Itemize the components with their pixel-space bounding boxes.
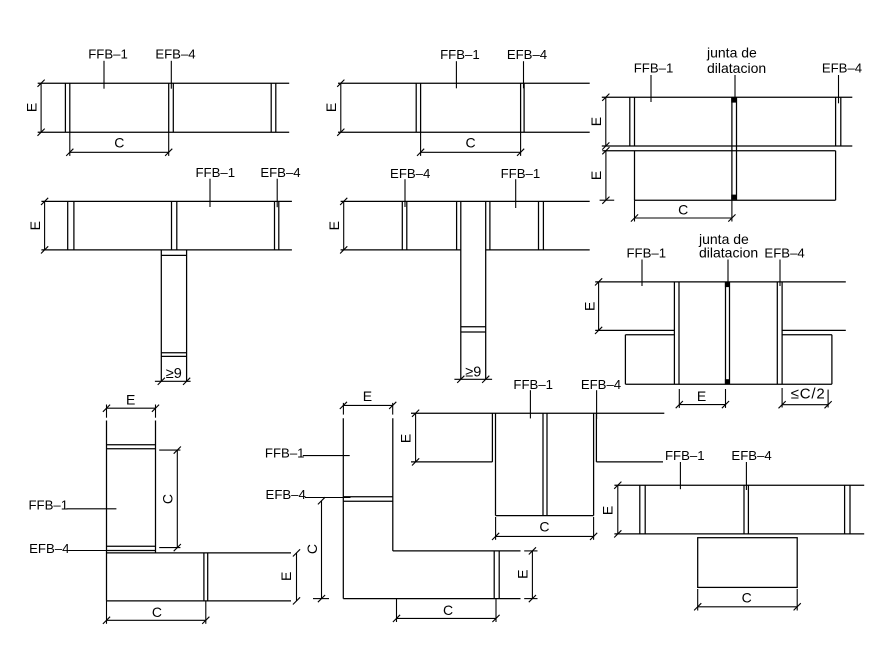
D7 dim C bottom tick right — [202, 617, 209, 624]
D1 dim C tick right — [165, 149, 172, 156]
D7 dim E line — [107, 407, 156, 409]
D2 dim E line — [340, 83, 342, 132]
D10 dim C tick right — [794, 603, 801, 610]
D10 wall joint middle — [744, 485, 748, 534]
D9 slab bottom left line — [411, 461, 492, 463]
svg-text:C: C — [678, 202, 688, 218]
D2 dim E tick top — [337, 80, 344, 87]
D7 dim C line — [176, 450, 178, 547]
svg-text:E: E — [697, 388, 706, 404]
svg-text:FFB–1: FFB–1 — [501, 166, 541, 181]
D3 leader FFB-1 — [650, 75, 652, 102]
D8 dim E right tick bottom — [529, 595, 536, 602]
detail 9: wide T junction plan, bottom-middle-right — [397, 377, 664, 540]
D1 dim C ext right — [168, 132, 170, 156]
D5 dim >=9 tick left — [457, 376, 464, 383]
D5 dim >=9 line — [454, 378, 492, 380]
D4 leader EFB-4 — [276, 179, 278, 208]
D3 lower slab bottom stub — [600, 199, 615, 201]
D7 column upper joint — [107, 445, 156, 449]
D9 dim E tick top — [412, 410, 419, 417]
D10 leader EFB-4 — [745, 462, 747, 490]
svg-text:E: E — [24, 103, 40, 112]
D5 dim E line — [343, 201, 345, 250]
D6 lower right box top — [782, 334, 832, 336]
D7 dim C tick bottom — [174, 544, 181, 551]
svg-text:≥9: ≥9 — [166, 366, 182, 382]
svg-text:E: E — [600, 506, 616, 515]
D4 leader FFB-1 — [209, 179, 211, 207]
D1 wall joint left — [65, 83, 69, 132]
svg-text:E: E — [126, 392, 135, 408]
detail 2: straight wall plan, top-middle — [323, 47, 590, 156]
D3 dim E upper tick top — [602, 94, 609, 101]
D3 joint marker bottom — [731, 195, 736, 200]
D8 column left edge — [342, 418, 344, 598]
D1 wall joint middle — [169, 83, 174, 132]
D10 slab bottom line — [614, 533, 864, 535]
D6 dim C/2 tick right — [825, 401, 832, 408]
D2 dim C tick left — [417, 149, 424, 156]
svg-text:EFB–4: EFB–4 — [155, 47, 195, 62]
D4 wall joint right — [275, 201, 279, 250]
D8 dim E tick left — [340, 402, 347, 409]
D5 dim E tick bottom — [340, 246, 347, 253]
D7 dim E right line — [296, 553, 298, 601]
svg-text:FFB–1: FFB–1 — [627, 245, 667, 260]
svg-text:C: C — [742, 590, 752, 606]
detail 8: corner plan, bottom-middle — [265, 388, 538, 622]
D6 wall joint right — [777, 282, 782, 384]
svg-text:E: E — [278, 572, 294, 581]
svg-text:C: C — [443, 602, 453, 618]
D8 dim C left tick top — [318, 497, 325, 504]
svg-text:FFB–1: FFB–1 — [265, 445, 305, 460]
D6 lower right box right edge — [831, 335, 833, 385]
svg-text:EFB–4: EFB–4 — [29, 541, 69, 556]
svg-text:junta de: junta de — [706, 45, 757, 61]
D5 slab bottom right line — [486, 249, 590, 251]
D7 leader EFB-4 — [69, 550, 107, 552]
D7 dim E right tick bottom — [293, 597, 300, 604]
D1 leader EFB-4 — [170, 61, 172, 89]
D4 dim >=9 tick left — [158, 378, 165, 385]
D8 dim E ext left — [342, 403, 344, 415]
D5 stem companion left — [456, 201, 458, 250]
D1 slab bottom line — [38, 131, 290, 133]
detail 5: T junction plan, middle — [326, 166, 590, 383]
D8 bar joint — [494, 551, 499, 599]
svg-text:FFB–1: FFB–1 — [440, 47, 480, 62]
D5 wall joint right — [539, 201, 544, 250]
D4 stem left edge — [160, 250, 162, 381]
D8 dim C bottom line — [397, 617, 497, 619]
D10 wall joint left — [640, 485, 645, 534]
D3 wall joint right — [836, 97, 841, 146]
D9 stem companion right — [595, 413, 597, 462]
svg-text:dilatacion: dilatacion — [707, 60, 766, 76]
D3 dim E lower tick top — [602, 147, 609, 154]
svg-text:dilatacion: dilatacion — [699, 244, 758, 260]
svg-text:C: C — [466, 134, 476, 150]
D6 leader junta — [727, 260, 729, 283]
svg-text:E: E — [397, 434, 413, 443]
D4 stem right edge — [186, 250, 188, 381]
svg-text:C: C — [304, 544, 320, 554]
D10 dim E line — [617, 485, 619, 534]
D8 dim C bottom tick left — [393, 615, 400, 622]
D2 slab top line — [338, 82, 590, 84]
D10 leader FFB-1 — [679, 462, 681, 489]
D9 slab bottom right line — [596, 461, 663, 463]
D10 slab top line — [614, 484, 864, 486]
D7 dim E ext left — [106, 405, 108, 418]
D10 dim C ext left — [697, 589, 699, 611]
D6 dim E left line — [598, 282, 600, 331]
D2 dim C ext left — [420, 132, 422, 156]
D7 dim C ext top — [159, 449, 180, 451]
D5 leader FFB-1 — [515, 179, 517, 208]
svg-text:FFB–1: FFB–1 — [29, 497, 69, 512]
D3 wall joint left — [630, 97, 635, 146]
D1 dim C ext left — [69, 132, 71, 156]
D6 bottom line — [625, 383, 832, 385]
D1 slab top line — [38, 82, 290, 84]
D3 dim E upper tick bottom — [602, 142, 609, 149]
D1 dim E tick top — [38, 80, 45, 87]
D3 dim C line — [635, 217, 732, 219]
D8 dim E right line — [531, 551, 533, 599]
D7 dim C bottom tick left — [103, 617, 110, 624]
D4 slab bottom line — [41, 249, 292, 251]
svg-text:E: E — [588, 117, 604, 126]
D8 dim E tick right — [389, 402, 396, 409]
svg-text:E: E — [323, 103, 339, 112]
D6 wall joint left — [674, 282, 679, 384]
D8 bar top stub — [524, 550, 537, 552]
D3 slab mid line — [602, 145, 853, 147]
D6 slab top line — [595, 281, 846, 283]
D8 dim C bottom ext left — [396, 599, 398, 622]
D8 dim C left line — [321, 501, 323, 599]
D3 dim C tick left — [631, 214, 638, 221]
svg-text:E: E — [515, 570, 531, 579]
D2 dim E tick bottom — [337, 129, 344, 136]
detail 1: straight wall plan, top-left — [24, 47, 290, 156]
D9 leader FFB-1 — [529, 390, 531, 418]
D7 dim C bottom ext right — [205, 601, 207, 624]
svg-text:FFB–1: FFB–1 — [196, 165, 236, 180]
D3 leader EFB-4 — [838, 75, 840, 103]
D8 column joint — [343, 497, 393, 502]
D7 column left edge — [106, 421, 108, 601]
D3 dim C tick right — [728, 214, 735, 221]
D6 expansion joint wall — [726, 282, 730, 384]
D6 dim E bottom ext right — [725, 389, 727, 408]
D3 dim C ext right — [731, 200, 733, 221]
D3 lower slab top line — [602, 150, 835, 152]
svg-text:EFB–4: EFB–4 — [390, 166, 430, 181]
D2 leader EFB-4 — [523, 61, 525, 88]
D6 dim E left tick top — [595, 278, 602, 285]
D8 dim C bottom tick right — [492, 615, 499, 622]
D8 dim E right tick top — [529, 547, 536, 554]
detail 4: T junction plan, middle-left — [27, 165, 301, 385]
D8 bar bottom line — [343, 598, 520, 600]
svg-text:E: E — [363, 388, 372, 404]
D6 dim E left tick bottom — [595, 327, 602, 334]
D10 dim C line — [698, 606, 798, 608]
D9 stem right edge — [593, 413, 595, 515]
D8 dim E ext right — [392, 403, 394, 415]
svg-text:C: C — [114, 135, 124, 151]
D10 dim E tick top — [614, 482, 621, 489]
D7 dim C bottom line — [107, 619, 206, 621]
D7 dim E tick left — [103, 405, 110, 412]
svg-text:FFB–1: FFB–1 — [88, 47, 128, 62]
svg-text:EFB–4: EFB–4 — [731, 448, 771, 463]
D7 bar top line — [107, 552, 292, 554]
D5 slab top line — [341, 200, 590, 202]
D9 leader EFB-4 — [596, 390, 598, 419]
D5 stem right edge — [485, 201, 487, 379]
D8 column right edge — [392, 418, 394, 551]
D3 leader junta — [734, 75, 736, 100]
D6 dim E bottom ext left — [678, 389, 680, 408]
D1 leader FFB-1 — [103, 61, 105, 89]
D6 lower left box left edge — [624, 335, 626, 385]
D4 dim E tick top — [41, 198, 48, 205]
D9 dim C line — [496, 535, 594, 537]
svg-text:≤C/2: ≤C/2 — [791, 386, 826, 403]
detail 3: expansion joint plan, top-right — [588, 45, 862, 222]
detail 6: expansion joint plan, middle-right — [581, 231, 846, 408]
svg-text:E: E — [27, 221, 43, 230]
D9 stem bottom line — [496, 515, 594, 517]
D1 dim C line — [70, 151, 169, 153]
D6 dim C/2 ext left — [781, 388, 783, 408]
D6 lower left box top — [625, 334, 674, 336]
D4 slab top line — [41, 200, 292, 202]
D10 dim E tick bottom — [614, 530, 621, 537]
D7 bar joint — [204, 553, 208, 601]
D4 wall joint left — [68, 201, 74, 250]
D7 dim C ext bottom — [159, 547, 180, 549]
D9 stem center joint — [543, 413, 547, 515]
D1 dim E tick bottom — [38, 129, 45, 136]
svg-text:EFB–4: EFB–4 — [260, 165, 300, 180]
D3 dim E lower line — [605, 151, 607, 201]
D1 wall joint right — [271, 83, 276, 132]
svg-text:C: C — [539, 519, 549, 535]
svg-text:EFB–4: EFB–4 — [822, 61, 862, 76]
D5 leader EFB-4 — [404, 179, 406, 207]
D2 dim C tick right — [517, 149, 524, 156]
D7 column right edge — [155, 421, 157, 553]
D9 dim E tick bottom — [412, 458, 419, 465]
D9 slab top line — [411, 412, 664, 414]
svg-text:C: C — [160, 494, 176, 504]
D4 dim >=9 tick right — [183, 378, 190, 385]
D5 dim >=9 tick right — [482, 376, 489, 383]
svg-text:E: E — [588, 171, 604, 180]
D10 lower slab box — [698, 538, 798, 588]
D9 stem left edge — [495, 413, 497, 515]
svg-text:EFB–4: EFB–4 — [266, 487, 306, 502]
D3 expansion joint wall — [732, 97, 737, 200]
D6 joint marker top — [725, 282, 730, 287]
D6 joint marker bottom — [725, 379, 730, 384]
D6 mid line right — [782, 329, 846, 331]
D5 stem companion right — [489, 201, 491, 250]
D8 dim E line — [343, 404, 392, 406]
D4 stem top inner line — [161, 254, 186, 256]
D10 dim C ext right — [796, 589, 798, 611]
D3 dim E lower tick bottom — [602, 197, 609, 204]
D9 stem companion left — [491, 413, 493, 462]
D5 slab bottom left line — [341, 249, 461, 251]
D7 dim E tick right — [152, 405, 159, 412]
D2 leader FFB-1 — [455, 61, 457, 88]
svg-text:EFB–4: EFB–4 — [764, 245, 804, 260]
D2 wall joint right — [521, 83, 525, 132]
D5 dim E tick top — [340, 198, 347, 205]
D7 leader FFB-1 — [67, 508, 117, 510]
D1 dim C tick left — [66, 149, 73, 156]
D7 dim C tick top — [174, 447, 181, 454]
svg-text:E: E — [581, 302, 597, 311]
svg-text:FFB–1: FFB–1 — [513, 377, 553, 392]
D7 dim E right tick top — [293, 549, 300, 556]
D6 dim C/2 tick left — [779, 401, 786, 408]
D3 joint marker top — [731, 97, 736, 102]
D8 leader EFB-4 — [305, 497, 351, 499]
D6 dim C/2 line — [782, 404, 828, 406]
svg-text:EFB–4: EFB–4 — [581, 377, 621, 392]
D9 dim C ext right — [593, 517, 595, 540]
D7 dim C bottom ext left — [106, 601, 108, 624]
D4 dim E tick bottom — [41, 246, 48, 253]
svg-text:FFB–1: FFB–1 — [665, 448, 705, 463]
detail 7: L corner plan, bottom-left — [29, 392, 301, 624]
D7 dim E ext right — [155, 405, 157, 418]
D6 leader FFB-1 — [641, 260, 643, 287]
svg-text:FFB–1: FFB–1 — [634, 61, 674, 76]
D8 dim C bottom ext right — [495, 599, 497, 622]
D6 dim E bottom line — [679, 404, 725, 406]
svg-text:≥9: ≥9 — [465, 365, 481, 381]
D6 dim E bottom tick left — [676, 401, 683, 408]
D6 dim E bottom tick right — [722, 401, 729, 408]
D4 dim E line — [44, 201, 46, 250]
D3 dim E upper line — [605, 97, 607, 146]
svg-text:C: C — [152, 604, 162, 620]
D1 dim E line — [40, 83, 42, 132]
D9 dim C tick right — [590, 533, 597, 540]
D5 stem joint lines — [461, 327, 486, 332]
D3 lower slab left edge — [634, 151, 636, 201]
D8 bar top line — [393, 550, 521, 552]
D6 dim C/2 ext right — [827, 390, 829, 408]
D7 bar bottom line — [107, 600, 292, 602]
D5 stem left edge — [460, 201, 462, 379]
D7 column lower joint — [107, 546, 156, 550]
D2 dim C line — [421, 151, 521, 153]
D3 slab top line — [602, 96, 853, 98]
D9 dim C ext left — [495, 517, 497, 540]
D3 lower slab right edge — [835, 151, 837, 201]
D8 dim C left tick bottom — [318, 595, 325, 602]
D2 dim C ext right — [520, 132, 522, 156]
D4 stem joint lines — [161, 353, 186, 357]
D10 wall joint right — [845, 485, 850, 534]
D5 wall joint left — [402, 201, 407, 250]
D4 dim >=9 line — [155, 380, 191, 382]
D2 slab bottom line — [338, 131, 590, 133]
D2 wall joint left — [416, 83, 420, 132]
D6 mid line left — [595, 329, 674, 331]
svg-text:E: E — [326, 221, 342, 230]
D6 leader EFB-4 — [779, 260, 781, 287]
svg-text:EFB–4: EFB–4 — [507, 47, 547, 62]
D3 dim C ext left — [634, 200, 636, 221]
D4 wall joint middle — [172, 201, 177, 250]
D10 dim C tick left — [694, 603, 701, 610]
detail 10: wall with lower slab plan, bottom-right — [600, 448, 865, 611]
D8 dim C left bottom stub — [313, 598, 329, 600]
D3 lower slab bottom line — [635, 199, 836, 201]
D9 dim E line — [415, 413, 417, 462]
D8 bar bottom stub — [524, 598, 537, 600]
D9 dim C tick left — [492, 533, 499, 540]
D8 leader FFB-1 — [303, 455, 350, 457]
